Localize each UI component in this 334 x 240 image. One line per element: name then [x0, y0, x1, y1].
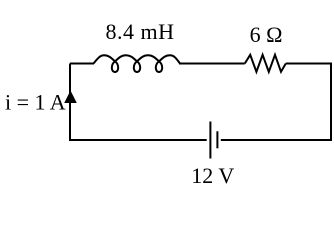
- svg-text:6 Ω: 6 Ω: [250, 22, 283, 47]
- svg-text:8.4 mH: 8.4 mH: [106, 19, 175, 44]
- svg-text:12 V: 12 V: [191, 163, 234, 188]
- svg-text:i = 1 A: i = 1 A: [5, 89, 66, 114]
